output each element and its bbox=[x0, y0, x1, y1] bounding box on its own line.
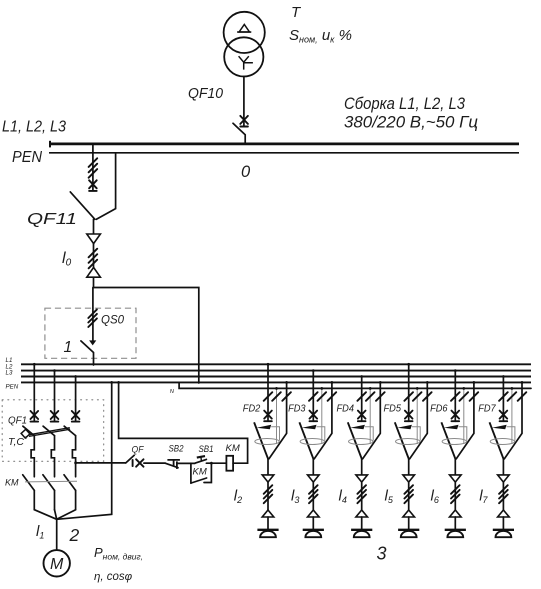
FD4 floodlight funnel bbox=[348, 422, 362, 459]
dotted enclosure around QF1 bbox=[2, 400, 104, 462]
FD7 PEN conductor bbox=[504, 382, 522, 459]
FD6 N conductor (gray) bbox=[463, 388, 465, 444]
wire: bus 0 down to QF11 bbox=[92, 145, 94, 191]
feeder FD2 group bbox=[234, 363, 291, 537]
svg-text:Pном, двиг,: Pном, двиг, bbox=[94, 545, 143, 562]
FD4 wire to luminaire bbox=[361, 517, 363, 529]
FD7 N conductor (gray) bbox=[511, 388, 513, 444]
FD6 plug connector down bbox=[450, 475, 462, 482]
QF1 pole 1 blade bbox=[23, 426, 34, 435]
cable l6 wire and slashes bbox=[454, 482, 456, 510]
svg-text:FD2: FD2 bbox=[243, 403, 261, 414]
N conductor line bbox=[179, 382, 531, 388]
svg-text:0: 0 bbox=[241, 163, 251, 181]
svg-text:η, cosφ: η, cosφ bbox=[94, 571, 133, 583]
motor M1 bbox=[44, 550, 70, 576]
QF1 pole 2 thermal release and wire bbox=[51, 436, 54, 477]
FD4 wire to cable bbox=[361, 459, 363, 475]
FD7 floodlight funnel bbox=[490, 422, 504, 459]
FD2 floodlight funnel bbox=[254, 422, 268, 459]
feeder FD5 group bbox=[384, 363, 432, 537]
FD5 plug connector up bbox=[403, 510, 415, 517]
svg-text:T,C*: T,C* bbox=[8, 435, 28, 448]
circuit breaker QF10 (X contact + blade) bbox=[240, 116, 248, 127]
svg-text:Sном, uк %: Sном, uк % bbox=[289, 27, 352, 45]
cable l4 wire and slashes bbox=[361, 482, 363, 510]
wire: N/PE conductor to motor bbox=[57, 382, 112, 519]
FD4 N conductor (gray) bbox=[369, 388, 371, 444]
svg-text:3: 3 bbox=[377, 544, 387, 564]
circuit breaker FD2 bbox=[264, 411, 272, 422]
luminaire symbol (bar + dome) bbox=[303, 529, 324, 531]
disconnector QS0 slashes bbox=[88, 309, 97, 318]
svg-text:FD3: FD3 bbox=[288, 403, 306, 414]
plug connector (down triangle) bbox=[87, 234, 101, 244]
wire: coil return to bus bbox=[119, 382, 248, 463]
wire: PEN drop into QF11 bbox=[96, 154, 115, 220]
QF1 pole 3 contact bbox=[72, 411, 80, 422]
svg-text:l3: l3 bbox=[291, 488, 299, 506]
QF1 pole 1 contact bbox=[31, 411, 39, 422]
svg-text:SB1: SB1 bbox=[199, 444, 214, 455]
bus 2 line L3 bbox=[21, 376, 531, 378]
wire: transformer to QF10 bbox=[243, 76, 245, 126]
bus 2 line L2 bbox=[21, 370, 531, 372]
svg-text:l2: l2 bbox=[234, 488, 242, 506]
circuit breaker QF11 (X contact + long blade) bbox=[89, 180, 97, 191]
bus 2 line L1 bbox=[21, 363, 531, 365]
svg-text:2: 2 bbox=[69, 525, 80, 545]
cable l0 slashes bbox=[89, 249, 98, 258]
auxiliary contact QF (blade + bar + X) bbox=[126, 455, 134, 463]
FD5 wire to luminaire bbox=[408, 517, 410, 529]
withdrawable contact arrow bbox=[89, 340, 96, 345]
circuit breaker FD3 bbox=[310, 411, 318, 422]
feeder FD7 group bbox=[478, 375, 526, 537]
luminaire symbol (bar + dome) bbox=[445, 529, 466, 531]
svg-text:l1: l1 bbox=[36, 523, 44, 541]
FD5 floodlight funnel bbox=[395, 422, 409, 459]
KM pole 3 blade bbox=[64, 475, 76, 491]
FD7 phase tap wire bbox=[502, 377, 504, 422]
stop button SB2 (NC pushbutton) bbox=[165, 460, 180, 469]
luminaire symbol (bar + dome) bbox=[398, 529, 419, 531]
cable l2 wire and slashes bbox=[267, 482, 269, 510]
svg-text:KM: KM bbox=[193, 467, 207, 478]
wire: bypass branch to section 2 PEN bbox=[94, 288, 199, 384]
svg-text:QF11: QF11 bbox=[27, 211, 77, 228]
QF1 handle (tilted square) bbox=[21, 429, 30, 438]
transformer T (two overlapping circles, delta/wye windings) bbox=[224, 12, 265, 77]
FD7 wire to cable bbox=[502, 459, 504, 475]
contactor coil KM bbox=[226, 456, 233, 471]
svg-text:l4: l4 bbox=[339, 488, 347, 506]
FD3 phase tap wire bbox=[312, 371, 314, 422]
svg-text:KM: KM bbox=[5, 478, 19, 488]
converging wires to motor cable bbox=[34, 510, 75, 520]
svg-text:FD6: FD6 bbox=[430, 403, 448, 414]
FD2 phase tap wire bbox=[267, 364, 269, 421]
wire into QS0 bbox=[92, 288, 94, 341]
svg-text:380/220 В,~50 Гц: 380/220 В,~50 Гц bbox=[344, 114, 478, 132]
KM auxiliary contact (self-hold) bbox=[191, 463, 212, 483]
FD4 plug connector up bbox=[356, 510, 368, 517]
FD3 wire to luminaire bbox=[312, 517, 314, 529]
FD2 PEN conductor bbox=[269, 382, 287, 459]
svg-text:PEN: PEN bbox=[6, 384, 19, 391]
KM mechanical linkage (gray) bbox=[25, 480, 77, 483]
FD2 wire to cable bbox=[267, 459, 269, 475]
bus 0: PEN conductor (thin) bbox=[49, 152, 519, 154]
QF1 pole 2 contact bbox=[51, 411, 59, 422]
FD3 plug connector down bbox=[308, 475, 320, 482]
QF1 tie bar (double line) bbox=[29, 428, 70, 437]
delta winding symbol bbox=[239, 24, 249, 32]
feeder FD4 group bbox=[337, 375, 385, 537]
FD4 PEN conductor bbox=[363, 382, 381, 459]
feeder FD6 group bbox=[430, 369, 478, 537]
conductor count slashes bbox=[89, 158, 98, 167]
QF1 pole 2 drop wire bbox=[54, 371, 56, 422]
start button SB1 (NO pushbutton) bbox=[195, 456, 207, 463]
wire: control tap from QF1 pole 3 bbox=[76, 462, 126, 464]
svg-text:1: 1 bbox=[64, 339, 73, 356]
FD5 N conductor (gray) bbox=[416, 388, 418, 444]
luminaire symbol (bar + dome) bbox=[493, 529, 514, 531]
cable l5 wire and slashes bbox=[408, 482, 410, 510]
svg-text:FD7: FD7 bbox=[478, 403, 496, 414]
QF1 pole 3 thermal release and wire bbox=[72, 436, 75, 477]
dashed enclosure (switchgear cubicle) bbox=[45, 308, 136, 358]
bus 2 line PEN bbox=[21, 381, 531, 383]
FD4 plug connector down bbox=[356, 475, 368, 482]
svg-text:M: M bbox=[50, 556, 64, 573]
circuit breaker FD7 bbox=[500, 411, 508, 422]
svg-text:QF: QF bbox=[132, 444, 145, 455]
circuit breaker FD4 bbox=[358, 411, 366, 422]
QF1 pole 3 blade bbox=[64, 426, 75, 435]
wye winding symbol bbox=[239, 56, 253, 69]
KM pole 1 blade bbox=[23, 475, 35, 491]
bus 0: phase busbar L1,L2,L3 (thick) bbox=[50, 143, 519, 146]
wire: QF11 to cable l0 bbox=[93, 219, 95, 287]
QF1 pole 3 drop wire bbox=[75, 377, 77, 422]
FD5 plug connector down bbox=[403, 475, 415, 482]
svg-text:L1, L2, L3: L1, L2, L3 bbox=[2, 119, 66, 136]
cable l7 wire and slashes bbox=[502, 482, 504, 510]
feeder FD3 group bbox=[288, 369, 336, 537]
svg-text:N: N bbox=[170, 389, 175, 395]
FD7 plug connector down bbox=[498, 475, 510, 482]
circuit breaker FD6 bbox=[452, 411, 460, 422]
svg-text:QF1: QF1 bbox=[8, 414, 27, 426]
KM pole 3 wire down bbox=[75, 490, 77, 509]
FD6 floodlight funnel bbox=[441, 422, 455, 459]
svg-text:FD5: FD5 bbox=[384, 403, 402, 414]
cable l3 wire and slashes bbox=[312, 482, 314, 510]
FD2 plug connector up bbox=[262, 510, 274, 517]
FD2 N conductor (gray) bbox=[276, 388, 278, 444]
FD3 wire to cable bbox=[312, 459, 314, 475]
QF1 pole 1 drop wire bbox=[33, 364, 35, 421]
plug connector (up triangle) bbox=[87, 267, 101, 277]
FD3 plug connector up bbox=[308, 510, 320, 517]
FD6 PEN conductor bbox=[456, 382, 474, 459]
svg-text:L3: L3 bbox=[6, 370, 13, 377]
FD2 plug connector down bbox=[262, 475, 274, 482]
FD5 wire to cable bbox=[408, 459, 410, 475]
FD3 N conductor (gray) bbox=[321, 388, 323, 444]
FD3 floodlight funnel bbox=[299, 422, 313, 459]
QS0 blade bbox=[81, 341, 94, 365]
circuit breaker FD5 bbox=[405, 411, 413, 422]
QF1 pole 1 thermal release and wire bbox=[31, 436, 34, 477]
KM pole 1 wire down bbox=[33, 490, 35, 509]
FD6 wire to luminaire bbox=[454, 517, 456, 529]
FD3 PEN conductor bbox=[314, 382, 332, 459]
svg-text:Сборка L1, L2, L3: Сборка L1, L2, L3 bbox=[344, 95, 466, 113]
svg-text:l0: l0 bbox=[62, 250, 72, 269]
FD5 phase tap wire bbox=[408, 364, 410, 421]
QF1 pole 2 blade bbox=[43, 426, 54, 435]
KM pole 2 blade bbox=[43, 475, 55, 491]
FD7 plug connector up bbox=[498, 510, 510, 517]
wire bbox=[177, 462, 195, 464]
wire bbox=[144, 462, 165, 464]
FD6 wire to cable bbox=[454, 459, 456, 475]
svg-text:PEN: PEN bbox=[12, 149, 43, 166]
luminaire symbol (bar + dome) bbox=[257, 529, 278, 531]
svg-text:T: T bbox=[291, 4, 302, 21]
svg-text:FD4: FD4 bbox=[337, 403, 355, 414]
FD6 phase tap wire bbox=[454, 371, 456, 422]
luminaire symbol (bar + dome) bbox=[351, 529, 372, 531]
svg-text:KM: KM bbox=[226, 443, 240, 454]
svg-text:l5: l5 bbox=[385, 488, 394, 506]
svg-text:SB2: SB2 bbox=[169, 444, 185, 455]
svg-text:l6: l6 bbox=[431, 488, 439, 506]
KM pole 2 wire down bbox=[54, 490, 56, 509]
FD5 PEN conductor bbox=[410, 382, 428, 459]
FD2 wire to luminaire bbox=[267, 517, 269, 529]
FD6 plug connector up bbox=[450, 510, 462, 517]
svg-text:QS0: QS0 bbox=[101, 313, 124, 327]
cable l1 wire to motor bbox=[56, 519, 58, 550]
FD4 phase tap wire bbox=[361, 377, 363, 422]
FD7 wire to luminaire bbox=[502, 517, 504, 529]
svg-text:QF10: QF10 bbox=[188, 86, 223, 102]
wire bbox=[206, 462, 226, 464]
svg-text:l7: l7 bbox=[479, 488, 488, 506]
